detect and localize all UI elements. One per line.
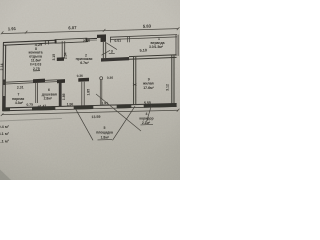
plan sheet bottom edge	[0, 118, 62, 121]
wall end cap black	[57, 57, 64, 61]
corner pillar (black)	[97, 34, 106, 42]
room 9 left wall	[134, 57, 136, 105]
door mark x on room9 left wall	[133, 84, 137, 86]
door leaf black bar	[33, 79, 45, 83]
leader line to porch label left	[76, 109, 94, 141]
shower right wall cap black	[57, 79, 65, 83]
veranda top wall	[110, 35, 177, 40]
bottom dim tick left	[1, 113, 4, 116]
long diagonal crease/leader line	[96, 94, 141, 131]
veranda door jamb stub	[128, 37, 130, 43]
paper edge bottom-left corner	[0, 170, 11, 181]
wall парная/душевая	[36, 83, 38, 103]
wall room8/hall vertical	[62, 41, 64, 57]
middle partition wall vertical	[82, 82, 84, 106]
dim tick x=104	[103, 29, 106, 32]
corridor label underline	[141, 123, 154, 126]
shower right wall black	[59, 83, 62, 108]
porch leader line upper	[106, 43, 117, 50]
bottom wall poche seg b	[32, 106, 55, 110]
left section top wall inner line	[3, 41, 88, 45]
film grain overlay	[0, 0, 180, 180]
stove circle	[100, 77, 103, 80]
left section top wall outer line	[3, 38, 97, 42]
bottom wall outer line	[3, 104, 177, 108]
leader line to porch label right	[113, 106, 136, 140]
T wall cap black middle	[78, 78, 89, 82]
room 9 top wall thin double	[129, 55, 177, 59]
bottom window 1.91	[93, 105, 117, 109]
dim tick x=178	[177, 27, 180, 30]
corridor top thick wall	[101, 57, 129, 62]
left wall poche black	[3, 96, 6, 108]
dim tick x=26	[25, 31, 28, 34]
bottom dimension line	[2, 110, 178, 114]
porch leader line lower	[102, 50, 111, 55]
top dimension chain line	[2, 29, 178, 34]
bottom wall poche seg d	[117, 104, 131, 108]
dim tick x=2	[1, 31, 4, 34]
interior wall rooms7/8 horizontal double	[3, 80, 57, 84]
vignette overlay	[0, 0, 180, 180]
room 8 left outer wall	[3, 43, 6, 112]
bottom window corridor	[131, 105, 144, 108]
paper background	[0, 0, 180, 180]
east wall of left section	[103, 42, 105, 59]
room 9 right wall	[172, 55, 174, 104]
window jamb ticks	[45, 40, 48, 45]
door opening to porch (threshold line)	[87, 39, 97, 41]
bottom window 1.50	[55, 106, 74, 109]
veranda left wall stub	[109, 37, 111, 42]
thin partition line	[100, 80, 102, 105]
veranda right wall	[176, 35, 178, 56]
corridor label leader	[147, 105, 152, 122]
bottom wall poche seg a	[3, 108, 10, 112]
bottom wall poche seg c	[74, 105, 93, 109]
left wall poche black upper	[3, 80, 6, 86]
bottom wall poche seg e	[144, 103, 177, 107]
bottom dim tick right	[177, 109, 180, 112]
porch label underline	[98, 139, 113, 141]
bottom wall inner line	[3, 106, 177, 110]
window big 2.46 in top wall	[55, 38, 87, 43]
